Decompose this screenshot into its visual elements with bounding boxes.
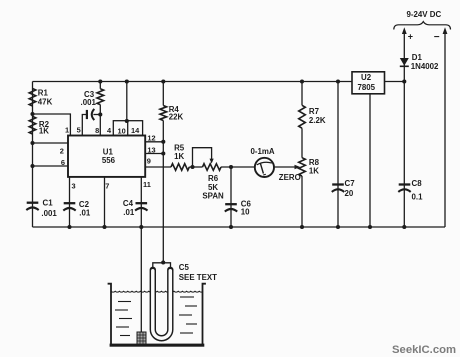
svg-text:SEE TEXT: SEE TEXT bbox=[179, 273, 217, 282]
svg-text:.001: .001 bbox=[81, 98, 97, 107]
resistor R5 bbox=[171, 164, 189, 171]
wire R6 wiper bracket bbox=[193, 148, 212, 167]
capacitor C8 bbox=[398, 185, 410, 192]
svg-text:2.2K: 2.2K bbox=[309, 116, 326, 125]
resistor R1 bbox=[29, 89, 36, 107]
meter M1 0-1mA bbox=[255, 158, 274, 177]
capacitor C7 bbox=[332, 185, 344, 192]
resistor R3 (unlabeled) bbox=[97, 89, 104, 105]
svg-text:13: 13 bbox=[147, 145, 155, 154]
capacitor C1 bbox=[26, 203, 38, 210]
svg-text:1K: 1K bbox=[174, 152, 184, 161]
svg-text:R1: R1 bbox=[38, 89, 49, 98]
svg-text:C5: C5 bbox=[179, 263, 190, 272]
wire pin8/R3 branch bbox=[99, 82, 101, 136]
svg-text:14: 14 bbox=[131, 126, 140, 135]
wire R7/R8 branch bbox=[301, 82, 303, 228]
wire pin13 bbox=[145, 153, 163, 155]
svg-text:D1: D1 bbox=[412, 53, 423, 62]
svg-text:7805: 7805 bbox=[358, 83, 376, 92]
wire top rail left segment bbox=[33, 81, 353, 83]
svg-text:U1: U1 bbox=[103, 148, 114, 157]
wire C6 branch bbox=[230, 167, 232, 227]
svg-text:0-1mA: 0-1mA bbox=[251, 147, 275, 156]
wire bottom ground rail bbox=[33, 226, 446, 228]
svg-text:0.1: 0.1 bbox=[412, 193, 424, 202]
wire pin11 / electrode line bbox=[140, 177, 142, 332]
svg-text:+: + bbox=[408, 32, 413, 42]
op-amp U1 556 IC body bbox=[68, 136, 145, 177]
svg-text:1: 1 bbox=[65, 126, 69, 135]
wire right vertical (minus terminal to ground) bbox=[444, 30, 446, 227]
voltage regulator U2 7805 box bbox=[352, 72, 385, 94]
wire pins 10/14 riser bbox=[126, 82, 128, 121]
capacitor C6 bbox=[225, 204, 237, 211]
wire R6 to meter bbox=[221, 166, 255, 168]
diode D1 bbox=[400, 58, 409, 66]
capacitor C5 U-tube bbox=[153, 270, 171, 338]
beaker water line bbox=[111, 290, 203, 293]
beaker bottom bbox=[110, 344, 205, 347]
wire pin5 riser bbox=[82, 115, 86, 136]
resistor R2 bbox=[29, 116, 36, 134]
svg-text:2: 2 bbox=[60, 146, 64, 155]
wire pin6 branch bbox=[33, 165, 69, 167]
pin number labels bbox=[60, 126, 156, 191]
wire D1 branch vertical bbox=[403, 30, 405, 227]
resistor R6 (pot) bbox=[203, 164, 222, 171]
wire top rail U2-to-D1 segment bbox=[385, 81, 405, 83]
arrow wiper into R6 (SPAN) bbox=[210, 159, 214, 164]
svg-text:1K: 1K bbox=[309, 167, 319, 176]
svg-text:6: 6 bbox=[61, 158, 65, 167]
svg-text:C1: C1 bbox=[43, 198, 54, 207]
svg-text:12: 12 bbox=[147, 133, 155, 142]
svg-text:−: − bbox=[434, 32, 440, 43]
wire pin2 branch bbox=[33, 142, 69, 144]
svg-text:.01: .01 bbox=[79, 208, 91, 217]
svg-text:7: 7 bbox=[105, 181, 109, 190]
resistor R4 bbox=[160, 106, 167, 121]
resistor R8 (pot) bbox=[299, 158, 306, 176]
wire pin1 branch bbox=[33, 114, 71, 136]
capacitor C2 bbox=[63, 203, 75, 210]
svg-text:5: 5 bbox=[77, 126, 81, 135]
beaker water dashes bbox=[115, 297, 197, 336]
svg-text:C8: C8 bbox=[412, 179, 423, 188]
svg-text:47K: 47K bbox=[38, 97, 53, 106]
wire pin12 bbox=[145, 141, 163, 143]
svg-text:22K: 22K bbox=[169, 113, 184, 122]
wire C3 right lead bbox=[93, 114, 100, 116]
svg-text:C7: C7 bbox=[345, 179, 356, 188]
arrow - terminal bbox=[443, 27, 448, 34]
svg-text:SeekIC.com: SeekIC.com bbox=[392, 344, 456, 356]
svg-text:10: 10 bbox=[118, 126, 126, 135]
wire pin3 to ground bbox=[69, 177, 71, 227]
svg-text:R6: R6 bbox=[208, 174, 219, 183]
wire pin9 to R5 bbox=[145, 166, 171, 168]
svg-text:8: 8 bbox=[95, 126, 99, 135]
arrow + terminal bbox=[402, 27, 407, 34]
svg-text:9-24V DC: 9-24V DC bbox=[407, 10, 442, 19]
beaker walls bbox=[108, 284, 206, 346]
svg-text:11: 11 bbox=[143, 180, 151, 189]
svg-text:SPAN: SPAN bbox=[202, 191, 224, 200]
svg-text:556: 556 bbox=[102, 156, 116, 165]
wire C7 branch bbox=[337, 82, 339, 228]
svg-text:1K: 1K bbox=[39, 126, 49, 135]
resistor R7 bbox=[299, 105, 306, 128]
svg-text:3: 3 bbox=[72, 181, 76, 190]
wire R5-R6 bbox=[189, 166, 202, 168]
svg-text:.01: .01 bbox=[123, 208, 135, 217]
svg-text:20: 20 bbox=[345, 189, 354, 198]
arrow wiper into R8 (ZERO) bbox=[295, 165, 301, 170]
svg-text:.001: .001 bbox=[41, 209, 57, 218]
wire left vertical bus bbox=[32, 82, 34, 228]
capacitor C4 bbox=[135, 203, 147, 210]
wire U2 ground pin to rail bbox=[369, 94, 371, 228]
capacitor C3 bbox=[87, 109, 94, 120]
capacitor C5 probe bracket bbox=[153, 263, 171, 267]
svg-text:1N4002: 1N4002 bbox=[411, 62, 439, 71]
pins 10/14 tab boxes bbox=[113, 121, 142, 136]
wire meter to R8 wiper bbox=[274, 166, 297, 168]
wire pin7 to ground bbox=[104, 177, 106, 227]
svg-text:U2: U2 bbox=[361, 73, 372, 82]
svg-text:10: 10 bbox=[241, 208, 250, 217]
wire R4 / pins 12-13 / C5 vertical bbox=[162, 82, 164, 263]
svg-text:9: 9 bbox=[147, 157, 151, 166]
svg-text:ZERO: ZERO bbox=[279, 173, 301, 182]
electrode in beaker bbox=[137, 332, 146, 345]
brace 9-24V DC bbox=[394, 22, 451, 30]
